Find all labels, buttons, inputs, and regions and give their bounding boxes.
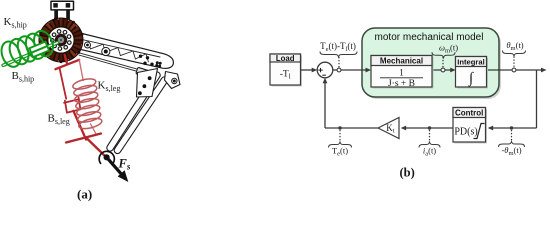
svg-text:motor mechanical model: motor mechanical model bbox=[375, 32, 484, 43]
svg-text:Mechanical: Mechanical bbox=[380, 57, 423, 66]
svg-text:Load: Load bbox=[276, 54, 295, 63]
svg-text:1: 1 bbox=[399, 69, 404, 79]
svg-text:Integral: Integral bbox=[457, 58, 484, 67]
svg-text:Control: Control bbox=[455, 109, 483, 118]
svg-text:(a): (a) bbox=[77, 187, 92, 202]
svg-text:J·s + B: J·s + B bbox=[388, 79, 415, 89]
svg-text:(b): (b) bbox=[400, 166, 415, 180]
svg-text:PD(s): PD(s) bbox=[454, 127, 477, 138]
